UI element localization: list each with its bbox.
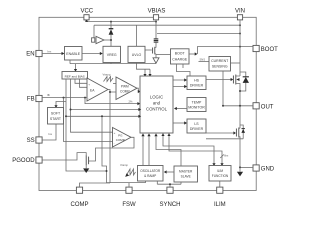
svg-text:TEMP: TEMP: [192, 100, 202, 104]
block ENABLE: [65, 47, 83, 61]
svg-text:FSW: FSW: [122, 202, 136, 208]
wire: secondary oscillator feed: [102, 116, 107, 171]
svg-text:Ifb: Ifb: [47, 93, 50, 97]
svg-text:MASTER: MASTER: [179, 169, 193, 173]
block HS DRIVER: [187, 76, 206, 90]
svg-text:SNS: SNS: [200, 57, 206, 61]
pin BOOT: [253, 45, 259, 51]
wire: BOOT CHARGE bottom to HS DRIVER: [177, 64, 191, 76]
svg-text:PG: PG: [118, 134, 123, 138]
wire: LOGIC to HS DRIVER (2 lines): [173, 80, 185, 87]
wire: FSW pin stub: [128, 183, 130, 188]
svg-text:+: +: [88, 83, 90, 87]
wire: REF bus line 1 down to oscillator region: [66, 79, 107, 171]
svg-text:VIN: VIN: [235, 9, 245, 15]
wire: OSC to LOGIC (2 lines): [143, 136, 149, 166]
svg-text:VCC: VCC: [80, 9, 93, 15]
wire: PG COMP output to PGOOD mosfet gate: [89, 137, 134, 161]
wire: FB to PG COMP lower input: [64, 98, 113, 142]
wire: OUT node to OUT pin: [223, 105, 253, 107]
block REF and BIAS: [62, 72, 88, 80]
svg-text:CHARGE: CHARGE: [172, 58, 188, 62]
wire: REF bus line 2 to PG COMP: [71, 79, 113, 132]
svg-text:MONITOR: MONITOR: [188, 106, 205, 110]
pin VIN: [237, 15, 242, 20]
svg-text:ILIM: ILIM: [217, 169, 224, 173]
svg-text:SS: SS: [27, 138, 35, 144]
wire: soft start feed arrow: [56, 102, 66, 106]
svg-text:FUNCTION: FUNCTION: [212, 174, 229, 178]
wire: TEMP MONITOR to LOGIC: [176, 108, 187, 110]
svg-text:-: -: [114, 142, 115, 146]
block LS DRIVER: [187, 119, 206, 133]
wire: LS driver lower sense line: [206, 138, 243, 140]
wire: COMP pin connection: [80, 183, 111, 187]
svg-text:SENSING: SENSING: [212, 65, 228, 69]
pin COMP: [76, 187, 82, 193]
svg-text:PGOOD: PGOOD: [12, 158, 35, 164]
svg-text:REF and BIAS: REF and BIAS: [65, 75, 85, 79]
wire: FB input to EA: [42, 97, 87, 99]
pin FSW: [126, 187, 132, 193]
svg-text:Vramp: Vramp: [103, 73, 111, 77]
wire: BOOT CHARGE output to BOOT pin: [189, 53, 196, 55]
block VREG: [103, 46, 121, 62]
wire: EA output to PWM COMP and down to COMP pin: [108, 90, 116, 184]
svg-text:DRIVER: DRIVER: [190, 127, 204, 131]
block TEMP MONITOR: [187, 98, 206, 112]
diode D3 LS body diode: [240, 125, 243, 139]
wire: VIN sense line (line B): [94, 25, 240, 40]
diode T1 to internal rail: [153, 58, 159, 63]
wire: ramp to PWM COMP: [113, 83, 116, 85]
wire: UVLO top to line B: [136, 25, 138, 46]
wire: switch node to BOOT CHARGE input: [156, 53, 171, 55]
svg-text:OUT: OUT: [261, 104, 274, 110]
svg-text:& RAMP: & RAMP: [144, 174, 156, 178]
svg-text:COMP: COMP: [71, 202, 89, 208]
svg-text:BOOT: BOOT: [175, 52, 186, 56]
svg-text:Vramp: Vramp: [120, 163, 128, 167]
diode D1 (VREG to VCC rail): [110, 22, 112, 47]
wire: REF bus line 3 to EA: [75, 79, 87, 83]
pin FB: [36, 95, 42, 101]
pin VBIAS: [153, 15, 158, 20]
wire: CURRENT SENSING bottom to OUT line: [222, 71, 224, 106]
svg-text:EN: EN: [26, 52, 34, 58]
diode D2 HS body diode: [240, 72, 246, 91]
svg-text:LOGIC: LOGIC: [150, 94, 163, 99]
svg-text:SOFT: SOFT: [51, 111, 61, 115]
comparator PWM COMP: [116, 77, 137, 100]
svg-text:VBIAS: VBIAS: [148, 9, 166, 15]
block CURRENT SENSING: [209, 57, 231, 72]
wire: MASTER SLAVE to OSC arrow: [166, 171, 174, 173]
op-amp EA: [87, 78, 108, 101]
wire: SYNCH pin to MASTER SLAVE and OSC: [157, 181, 181, 187]
wire: soft start output to LOGIC: [66, 115, 139, 117]
pin GND: [253, 165, 259, 171]
ground G2: [239, 167, 241, 171]
svg-text:SYNCH: SYNCH: [159, 202, 180, 208]
wire: ILIM pin to ILIM FUNCTION: [219, 181, 221, 187]
wire: VIN column down to HS mosfet: [239, 20, 241, 76]
wire: LOGIC to ILIM FUNCTION line 1: [163, 133, 214, 164]
VBIAS column with zener Z1: [155, 20, 157, 47]
block SOFT START: [48, 108, 64, 125]
svg-text:VREG: VREG: [107, 53, 117, 57]
arrow into VCC pin: [85, 19, 88, 22]
svg-text:PWM: PWM: [121, 85, 129, 89]
block ILIM FUNCTION: [209, 166, 231, 182]
wire: rail to REF and BIAS with arrow: [75, 64, 77, 70]
svg-text:LS: LS: [194, 122, 199, 126]
svg-text:2%: 2%: [129, 100, 133, 104]
svg-text:CURRENT: CURRENT: [211, 59, 229, 63]
svg-text:+: +: [114, 131, 116, 135]
svg-text:CONTROL: CONTROL: [146, 106, 168, 111]
svg-text:Ien: Ien: [48, 49, 52, 53]
svg-text:HS: HS: [194, 79, 200, 83]
wire: EN to ENABLE: [42, 53, 63, 55]
wire: FB monitor line to LOGIC (2%): [85, 98, 138, 104]
pin VCC: [84, 15, 89, 20]
svg-text:SLAVE: SLAVE: [181, 175, 191, 179]
comparator PG COMP: [113, 128, 132, 148]
wire: LOGIC to LS DRIVER: [173, 122, 185, 124]
svg-text:ILIM: ILIM: [214, 202, 226, 208]
wire: UVLO bottom to LOGIC top arrows: [137, 63, 151, 75]
block BOOT CHARGE: [171, 49, 190, 64]
transistor Q3 PGOOD MOSFET: [42, 153, 86, 160]
current source Ilim marks: [220, 155, 224, 159]
svg-text:FB: FB: [27, 97, 35, 103]
svg-text:-: -: [88, 96, 89, 100]
wire: internal VCC rail (line A): [87, 20, 157, 22]
block MASTER SLAVE: [174, 166, 198, 182]
svg-text:ENABLE: ENABLE: [66, 52, 80, 56]
svg-text:DRIVER: DRIVER: [190, 84, 204, 88]
wire: REF bus line 4 to EA: [80, 79, 88, 87]
wire: oscillator reference bus to FSW: [107, 171, 146, 183]
wire: internal supply rail y=63.6: [70, 63, 156, 65]
block UVLO: [128, 46, 145, 62]
wire: reference line to LOGIC: [71, 109, 140, 111]
wire: SS pin to SOFT START: [42, 124, 56, 140]
wire: VBIAS-VIN link (line C): [157, 33, 240, 35]
pin PGOOD: [36, 157, 42, 163]
svg-text:OSCILLATOR: OSCILLATOR: [140, 169, 161, 173]
wire: ENABLE to VREG: [82, 53, 101, 55]
node: VCC junction dots: [110, 21, 112, 23]
label SNS and sense wire: [199, 61, 210, 63]
svg-text:Iss: Iss: [49, 132, 53, 136]
svg-text:UVLO: UVLO: [132, 53, 142, 57]
block LOGIC and CONTROL: [140, 76, 173, 133]
pMOS switch M3 (VBIAS to internal rail): [145, 49, 152, 51]
transistor Q1 HS MOSFET: [206, 79, 231, 81]
pin SYNCH: [167, 187, 173, 193]
svg-text:GND: GND: [261, 167, 275, 173]
wire: GND node to GND pin: [240, 166, 253, 168]
buffer U2 (VCC switch comparator): [92, 38, 95, 42]
pin OUT: [253, 103, 259, 109]
wire: ENABLE bottom to rail: [69, 60, 71, 64]
pin SS: [36, 137, 42, 143]
IC boundary border: [39, 17, 256, 190]
svg-text:Ilim: Ilim: [224, 154, 229, 158]
block OSCILLATOR & RAMP: [138, 166, 164, 182]
pin ILIM: [217, 187, 223, 193]
svg-text:COMP: COMP: [120, 90, 130, 94]
svg-text:and: and: [153, 100, 161, 105]
svg-text:COMP: COMP: [116, 138, 125, 142]
wire: PWM COMP output to LOGIC: [137, 88, 139, 91]
wire: VREG bottom to rail: [110, 63, 112, 64]
pin EN: [36, 50, 42, 56]
wire: MASTER SLAVE to LOGIC: [156, 136, 181, 166]
wire: CURRENT SENSING right to VIN column: [231, 62, 241, 64]
svg-text:START: START: [50, 117, 62, 121]
svg-text:BOOT: BOOT: [261, 47, 278, 53]
wire: LOGIC to ILIM FUNCTION line 2 with current source Ilim: [169, 133, 222, 164]
transistor Q2 LS MOSFET: [206, 132, 234, 134]
wire: buffer output to D1 column: [104, 39, 111, 41]
ground G1: [83, 168, 89, 173]
